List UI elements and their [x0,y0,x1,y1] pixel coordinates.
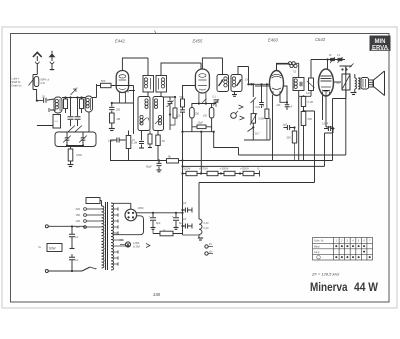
svg-text:Schtr. Nr.: Schtr. Nr. [314,240,324,243]
table row gramo [317,255,321,259]
band switch contact 2 [240,116,245,120]
svg-text:+270V: +270V [199,167,209,171]
svg-text:0,02: 0,02 [176,115,181,118]
resistor 0.5M below gang [68,149,73,161]
svg-text:ERVA: ERVA [372,45,389,51]
IF transformer T-A winding 2 [156,76,167,93]
svg-text:0,5µF: 0,5µF [322,123,329,126]
svg-text:0,5M: 0,5M [76,153,82,157]
wire switch to primary [95,268,97,269]
resistor osc grid [174,97,176,108]
resistor R div1 [186,171,197,175]
wire V3 anode top [277,64,291,71]
capacitor 0.02 avc [261,84,263,102]
svg-text:Mittel: Mittel [314,245,320,248]
volume potentiometer 0.5M [251,114,255,124]
wire det bottom [244,118,270,140]
svg-text:Ω 25A: Ω 25A [133,245,140,248]
svg-text:0,1M: 0,1M [308,101,313,104]
tube V2 E455 [195,69,209,93]
mains voltage box 60W [47,244,62,252]
svg-text:0,1M: 0,1M [132,142,138,145]
wire osc coils down [142,131,159,141]
tap lead [113,257,119,259]
wire V4 cathode down [323,96,327,128]
transformer secondary winding [111,203,114,270]
svg-text:500: 500 [101,79,106,83]
resistor 0.1M af [301,97,305,107]
wire 600 down [303,126,305,161]
output transformer winding S [358,78,360,89]
ground [111,123,113,128]
wire gang bottom join [67,146,83,150]
svg-text:1054: 1054 [138,206,144,210]
switch arm pin [202,99,207,104]
svg-text:0,1: 0,1 [75,236,79,239]
transformer primary winding [102,206,105,268]
svg-text:60W: 60W [49,247,56,251]
ground [351,92,357,94]
svg-text:338: 338 [153,292,161,297]
speaker magnet [361,78,369,90]
tap lead [113,208,119,210]
wire verticals to rail [200,132,202,148]
tube V3 E460 [270,71,284,96]
capacitor top A [330,58,335,60]
wire V1 screen right down [133,86,135,135]
svg-text:2µF: 2µF [182,218,187,221]
wire V4 anode [334,81,342,83]
wire pin bus [192,103,217,105]
svg-text:0,02: 0,02 [256,107,261,109]
pickup terminal 2 [205,252,208,255]
wire bottom bus V2 [183,131,214,133]
tube V2 pins [199,93,206,104]
resistor 2M [111,111,113,114]
output transformer winding P [355,78,357,89]
tap lead [113,226,119,228]
antenna coupling element 80pF [33,75,37,90]
IF transformer T-B winding 1 [217,75,229,92]
grid resistor box [309,78,314,91]
resistor pill 250 [190,108,195,119]
wire heater loop [198,183,200,220]
wire V1 anode to top [122,58,148,76]
resistor osc mid [149,131,151,135]
mains fuse box [86,198,100,204]
switch arm 1 [66,126,75,134]
rectifier tube V5 [125,209,137,221]
IF transformer T-A winding 1 [143,76,154,93]
wire coil B down [88,112,90,132]
tube V1 pins [120,93,126,104]
svg-text:E455: E455 [193,39,203,44]
svg-text:250: 250 [195,113,200,116]
svg-text:7,5: 7,5 [293,71,297,74]
wire HV to rectifier [113,203,131,209]
wire bus2 [62,84,97,98]
antenna coil box A [54,97,62,113]
ground canB [234,92,236,95]
ground [70,161,72,165]
svg-text:20µF: 20µF [198,122,204,125]
switch contact low [248,128,254,132]
svg-text:100: 100 [245,79,250,82]
wire rail C loop [199,111,315,183]
wire bus [47,99,54,100]
wire V1 grid line [116,85,134,87]
frame tick mark [155,31,157,34]
node antenna bus [37,100,43,102]
lamp arrow [146,244,150,248]
wire rail feedback top [214,66,346,155]
filter choke resistor [160,231,173,236]
ground coil A tbar [49,108,56,112]
speaker cone [374,71,385,96]
resistor osc b [156,135,160,146]
wire V3 right side [284,86,288,102]
ground [198,235,200,239]
resistor R div2 [207,171,218,175]
svg-text:Lang: Lang [314,251,320,254]
svg-text:8µF: 8µF [156,221,161,225]
svg-text:~: ~ [38,245,41,251]
mains terminal top [45,225,48,228]
svg-text:Draht fur: Draht fur [12,84,22,88]
svg-text:150: 150 [76,213,81,217]
antenna coil box B [85,96,93,112]
resistor 500 grid stopper [101,83,112,87]
svg-text:1µF: 1µF [283,124,288,127]
svg-text:0,1: 0,1 [75,259,79,262]
wire bias bottom [183,234,200,236]
wire canA bottoms [148,92,170,97]
svg-text:2M: 2M [117,117,121,121]
switch position table [313,238,373,261]
svg-text:Ø1/8 St: Ø1/8 St [12,80,21,84]
wire V1 cathode bus [112,102,134,104]
svg-text:50,7: 50,7 [255,134,260,136]
wire V2 anode top [202,58,222,75]
svg-text:220: 220 [76,207,81,211]
smoothing cap 8uF B [175,212,177,214]
svg-text:Lufte l-: Lufte l- [12,77,20,81]
svg-text:600: 600 [308,117,313,121]
capacitor 250 [111,103,113,107]
Minerva logo badge [370,36,391,52]
resistor small b [80,99,84,109]
svg-text:65µF: 65µF [146,166,152,169]
transformer core [106,202,108,270]
mains terminal bottom [45,270,48,273]
heater pips [290,64,293,67]
resistor R div4 [243,171,254,175]
oscillator coil box L2 [138,97,150,131]
svg-text:0,5M: 0,5M [259,118,264,121]
smoothing cap 8uF A [152,212,154,214]
svg-text:0,3V: 0,3V [204,227,209,230]
magic eye [231,113,237,119]
resistor 600 [301,112,306,126]
tap lead [113,263,119,265]
osc grid column [169,97,171,101]
band switch contact 1 [239,105,244,109]
resistor avc [266,84,268,109]
mains switch [82,267,90,271]
svg-text:Ω R: Ω R [41,81,46,85]
svg-text:f(V: f(V [209,244,212,246]
border frame [11,34,390,303]
heater winding 6.3V [199,219,202,235]
svg-text:MIN: MIN [375,39,386,45]
wire AF bottoms [299,91,311,97]
IF transformer T-B winding 2 [231,75,242,92]
svg-text:80Pf ωl: 80Pf ωl [41,78,50,82]
resistor 50V [292,131,296,143]
svg-text:8µF: 8µF [179,221,184,225]
dial lamp [125,242,130,247]
svg-text:100: 100 [203,115,208,118]
trimmer 4 [71,89,77,95]
speaker voice coil [369,80,374,87]
svg-text:(0V: (0V [209,252,213,254]
svg-text:125: 125 [76,219,81,223]
svg-text:0: 0 [258,167,260,171]
wire pips to AF transformer [295,63,299,77]
ground tbar [128,89,135,93]
switch contact det [251,98,257,104]
wire mains top [48,226,85,228]
resistor small a [64,99,68,109]
svg-text:1µF: 1µF [306,93,311,95]
wire V2 grid feed [183,86,196,100]
padder capacitor 2 [77,98,79,117]
tube V1 E442 [116,71,128,93]
wire rail A speaker return [130,90,346,161]
wire V3 grid [255,85,270,87]
wire V3 top to heater pips [277,63,289,70]
wire HV return loop [113,216,144,235]
resistor R div3 [224,171,235,175]
wire V4 cathode to cap [326,127,333,129]
svg-text:2µF: 2µF [182,202,187,205]
wire output top [340,66,353,74]
wire V2 down to divider [200,148,202,174]
svg-text:+200V: +200V [240,167,250,171]
wire V4 grid bus [311,60,345,79]
tuning gang capacitor box [55,132,96,147]
padder capacitor 1 [70,98,72,117]
wire left down [37,125,53,127]
tap lead [113,214,119,216]
svg-text:Minerva: Minerva [310,280,348,294]
capacitor V3 cathode [285,105,290,107]
wire antenna to tuner [36,64,38,75]
variable cap C-gang1 [65,138,70,140]
resistor pill 100 [209,108,214,119]
wire long left vertical [111,140,131,161]
svg-text:110: 110 [76,225,81,229]
field coil box [342,74,350,90]
wire canB w2 to detector node [238,67,249,85]
svg-text:E460: E460 [268,38,278,43]
wire down from AF [298,96,300,160]
svg-text:6,3V: 6,3V [204,222,209,225]
tap lead [113,232,119,234]
capacitor 65uF [158,159,160,161]
svg-text:50V: 50V [287,137,292,140]
wire V4 top cap [327,60,329,70]
switch arm 2 [73,126,82,134]
tube V4 C643 [319,69,334,96]
wire B+ from rectifier [137,212,183,214]
svg-text:250: 250 [116,109,121,112]
tap lead [113,220,119,222]
padding coil box [53,115,61,129]
variable cap C-gang2 [81,138,86,140]
antenna A2 (earth) [51,51,53,54]
heater pips [288,62,291,65]
capacitor top B [338,58,343,60]
svg-text:ZF = 128,5 kHz: ZF = 128,5 kHz [311,272,339,277]
wire V3 cathode down [273,95,288,161]
wire bus ext [170,96,175,98]
svg-text:44 W: 44 W [354,280,379,294]
wire canA w2 top [161,63,201,76]
resistor 5k [167,159,179,163]
resistor 0.1M [126,136,131,149]
tap lead [113,251,119,253]
wire mains bottom [48,270,82,272]
svg-text:C643: C643 [315,37,326,42]
svg-text:+320V: +320V [182,167,192,171]
wire rail B [183,129,334,167]
wire det down [252,84,254,97]
svg-text:+190V: +190V [220,167,230,171]
mains filter cap bottom [69,257,75,259]
capacitor 27pF [139,142,144,144]
ground taps [113,245,127,247]
pickup terminal 1 [205,245,208,248]
wire detector bus [249,83,270,85]
AF transformer winding [293,78,304,91]
antenna A1 [33,52,42,57]
wire divider left [183,173,187,175]
svg-text:E442: E442 [115,39,125,44]
mains filter cap top [69,234,75,236]
oscillator coil box L3 [153,97,164,131]
